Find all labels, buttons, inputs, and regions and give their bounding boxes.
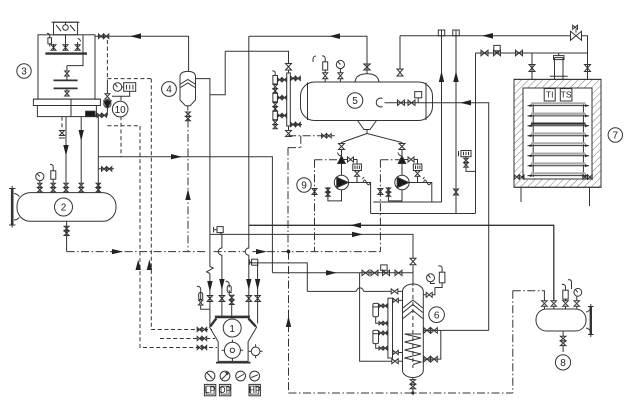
svg-text:HP: HP <box>248 385 261 395</box>
svg-text:TI: TI <box>546 90 554 100</box>
svg-text:3: 3 <box>21 67 27 78</box>
svg-text:OP: OP <box>219 385 232 395</box>
svg-text:LP: LP <box>205 385 216 395</box>
svg-text:6: 6 <box>434 310 440 321</box>
svg-text:2: 2 <box>61 203 67 214</box>
svg-text:TS: TS <box>561 90 572 100</box>
svg-text:10: 10 <box>115 105 127 116</box>
svg-text:8: 8 <box>560 358 566 369</box>
svg-text:4: 4 <box>166 85 172 96</box>
svg-text:5: 5 <box>352 96 358 107</box>
svg-text:7: 7 <box>613 131 619 142</box>
svg-text:9: 9 <box>301 181 307 192</box>
svg-text:1: 1 <box>229 324 235 335</box>
